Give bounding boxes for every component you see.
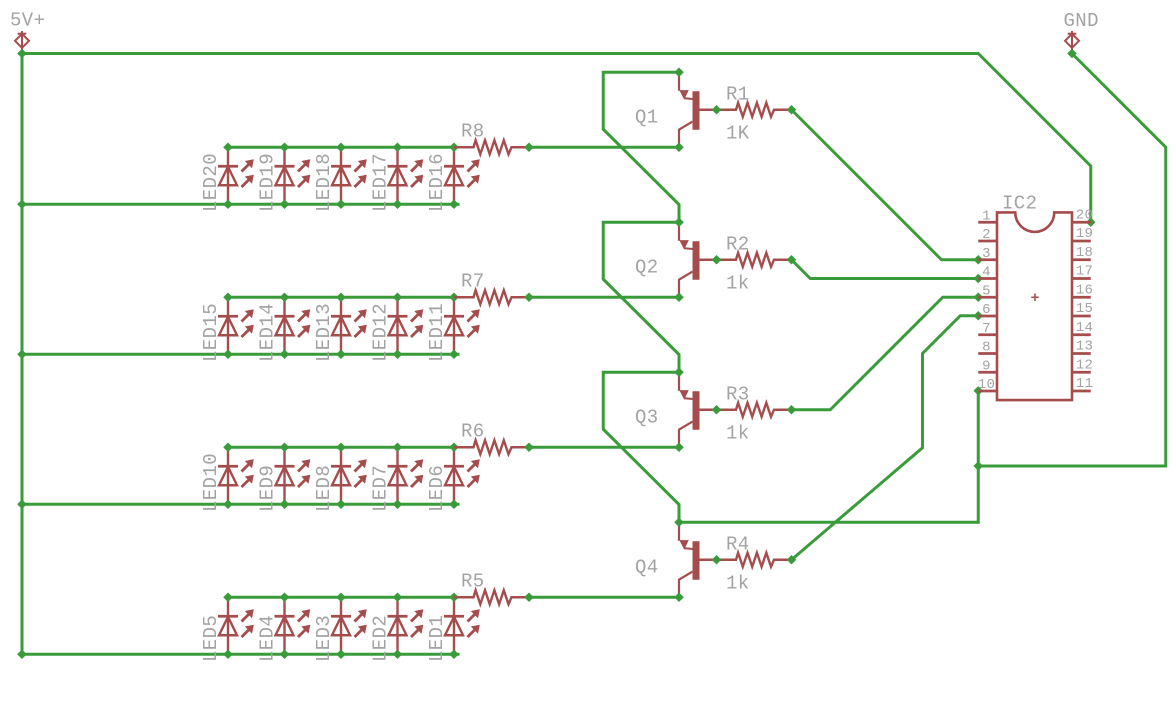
pin 13 [1072, 339, 1093, 355]
wire IC pin10 to Q4 emitter GND net [679, 391, 978, 523]
junction R4 left [712, 555, 722, 565]
LED LED1 [444, 597, 480, 654]
svg-text:20: 20 [1076, 207, 1094, 223]
junction LED2 cathode [393, 592, 403, 602]
junction LED4 cathode [280, 592, 290, 602]
wire R8 to transistor collector [529, 146, 679, 149]
svg-text:LED17: LED17 [370, 153, 392, 212]
svg-text:R1: R1 [726, 83, 750, 105]
svg-text:R6: R6 [461, 420, 485, 442]
svg-text:Q4: Q4 [635, 556, 659, 578]
svg-text:2: 2 [982, 227, 991, 243]
pin 6 [978, 302, 997, 318]
junction Q2 emitter [674, 217, 684, 227]
junction LED13 anode [336, 349, 346, 359]
junction anode rail at 5V+ rail [17, 649, 27, 659]
LED LED3 [331, 597, 367, 654]
svg-text:LED2: LED2 [370, 615, 392, 662]
pin 4 [978, 265, 997, 281]
wire 5V+ top rail to IC pin 20 [22, 54, 1091, 223]
wire R7 row cathode rail [228, 296, 454, 299]
svg-text:LED3: LED3 [313, 615, 335, 662]
junction LED15 cathode [223, 292, 233, 302]
svg-text:7: 7 [982, 321, 991, 337]
svg-text:14: 14 [1076, 320, 1094, 336]
junction R3 left [712, 405, 722, 415]
resistor R6 [454, 440, 529, 454]
junction LED1 anode [449, 649, 459, 659]
junction LED5 anode [223, 649, 233, 659]
svg-text:12: 12 [1076, 357, 1094, 373]
svg-text:R7: R7 [461, 270, 485, 292]
svg-text:1k: 1k [726, 423, 750, 445]
svg-text:LED13: LED13 [313, 303, 335, 362]
junction LED19 cathode [280, 142, 290, 152]
svg-text:LED14: LED14 [257, 303, 279, 362]
resistor R5 [454, 590, 529, 604]
junction R5 right [524, 592, 534, 602]
junction Q2 collector [674, 292, 684, 302]
junction LED15 anode [223, 349, 233, 359]
svg-text:R8: R8 [461, 120, 485, 142]
wire R5 to transistor collector [529, 596, 679, 599]
junction Q4 collector [674, 592, 684, 602]
junction LED16 cathode [449, 142, 459, 152]
pin 3 [978, 246, 997, 262]
pin 16 [1072, 282, 1093, 298]
wire R7 row anode rail [22, 353, 460, 356]
svg-text:LED11: LED11 [426, 303, 448, 362]
LED LED16 [444, 147, 480, 204]
junction LED12 anode [393, 349, 403, 359]
LED LED12 [388, 297, 424, 354]
svg-text:LED1: LED1 [426, 615, 448, 662]
junction anode rail at 5V+ rail [17, 199, 27, 209]
LED LED18 [331, 147, 367, 204]
junction LED8 anode [336, 499, 346, 509]
junction LED10 anode [223, 499, 233, 509]
svg-text:LED20: LED20 [200, 153, 222, 212]
junction LED3 cathode [336, 592, 346, 602]
junction R1 left [712, 105, 722, 115]
junction LED4 anode [280, 649, 290, 659]
junction LED9 cathode [280, 442, 290, 452]
junction GND net at x978 [973, 461, 983, 471]
junction IC pin 20 [1086, 217, 1096, 227]
transistor Q2 [679, 224, 717, 295]
junction LED14 cathode [280, 292, 290, 302]
junction LED14 anode [280, 349, 290, 359]
LED LED7 [388, 447, 424, 504]
pin 9 [978, 358, 997, 374]
wire R8 row anode rail [22, 203, 460, 206]
wire R5 row cathode rail [228, 596, 454, 599]
junction IC pin 6 [973, 311, 983, 321]
svg-text:1k: 1k [726, 573, 750, 595]
LED LED9 [275, 447, 311, 504]
supply 5V+ symbol [15, 31, 29, 51]
svg-text:LED8: LED8 [313, 465, 335, 512]
svg-text:LED19: LED19 [257, 153, 279, 212]
wire R6 row cathode rail [228, 446, 454, 449]
junction 5V+ pin [17, 49, 27, 59]
junction IC pin 3 [973, 255, 983, 265]
wire R2 to IC pin 4 [792, 260, 979, 279]
junction IC pin 10 [973, 386, 983, 396]
svg-text:11: 11 [1076, 376, 1094, 392]
junction LED20 cathode [223, 142, 233, 152]
junction Q3 collector [674, 442, 684, 452]
svg-text:Q2: Q2 [635, 256, 659, 278]
LED LED10 [218, 447, 254, 504]
junction LED9 anode [280, 499, 290, 509]
junction LED13 cathode [336, 292, 346, 302]
junction LED16 anode [449, 199, 459, 209]
junction anode rail at 5V+ rail [17, 499, 27, 509]
LED LED15 [218, 297, 254, 354]
LED LED20 [218, 147, 254, 204]
pin 15 [1072, 301, 1093, 317]
junction IC pin 4 [973, 274, 983, 284]
svg-text:5: 5 [982, 283, 991, 299]
junction LED17 cathode [393, 142, 403, 152]
LED LED17 [388, 147, 424, 204]
IC IC2 body [997, 212, 1072, 400]
junction Q4 emitter [674, 517, 684, 527]
svg-text:R4: R4 [726, 533, 750, 555]
junction R1 right [787, 105, 797, 115]
svg-text:R2: R2 [726, 233, 750, 255]
junction R2 right [787, 255, 797, 265]
junction LED1 cathode [449, 592, 459, 602]
transistor Q1 [679, 74, 717, 145]
junction LED20 anode [223, 199, 233, 209]
resistor R4 [717, 553, 792, 567]
resistor R1 [717, 103, 792, 117]
junction LED8 cathode [336, 442, 346, 452]
svg-text:17: 17 [1076, 264, 1094, 280]
junction LED11 anode [449, 349, 459, 359]
svg-text:LED5: LED5 [200, 615, 222, 662]
svg-text:1k: 1k [726, 273, 750, 295]
transistor Q4 [679, 524, 717, 595]
svg-text:9: 9 [982, 358, 991, 374]
transistor Q3 [679, 374, 717, 445]
junction LED3 anode [336, 649, 346, 659]
junction R3 right [787, 405, 797, 415]
svg-text:1: 1 [982, 208, 991, 224]
wire 5V+ vertical rail [21, 54, 24, 655]
junction IC pin 5 [973, 292, 983, 302]
LED LED11 [444, 297, 480, 354]
LED LED4 [275, 597, 311, 654]
wire Q1 emitter loop to next emitter [603, 72, 679, 222]
wire R5 row anode rail [22, 653, 460, 656]
junction LED6 anode [449, 499, 459, 509]
pin 8 [978, 340, 997, 356]
LED LED6 [444, 447, 480, 504]
junction R4 right [787, 555, 797, 565]
junction Q1 emitter [674, 67, 684, 77]
svg-text:18: 18 [1076, 245, 1094, 261]
LED LED13 [331, 297, 367, 354]
svg-text:LED7: LED7 [370, 465, 392, 512]
ground GND symbol [1065, 31, 1079, 51]
svg-text:8: 8 [982, 340, 991, 356]
svg-text:10: 10 [978, 377, 996, 393]
pin 14 [1072, 320, 1093, 336]
wire R1 to IC pin 3 [792, 110, 979, 260]
svg-text:GND: GND [1064, 10, 1099, 32]
pin 5 [978, 283, 997, 299]
LED LED19 [275, 147, 311, 204]
junction LED19 anode [280, 199, 290, 209]
wire GND diagonal right side [978, 54, 1166, 467]
svg-text:IC2: IC2 [1002, 193, 1037, 215]
junction LED17 anode [393, 199, 403, 209]
pin 7 [978, 321, 997, 337]
junction LED18 anode [336, 199, 346, 209]
resistor R7 [454, 290, 529, 304]
pin 10 [978, 377, 997, 393]
svg-text:19: 19 [1076, 226, 1094, 242]
wire R6 to transistor collector [529, 446, 679, 449]
wire Q2 emitter loop to next emitter [603, 222, 679, 372]
svg-text:LED10: LED10 [200, 453, 222, 512]
svg-text:13: 13 [1076, 339, 1094, 355]
svg-text:16: 16 [1076, 282, 1094, 298]
pin 2 [978, 227, 997, 243]
svg-text:5V+: 5V+ [10, 10, 45, 32]
junction Q3 emitter [674, 367, 684, 377]
wire R6 row anode rail [22, 503, 460, 506]
pin 20 [1072, 207, 1093, 223]
pin 1 [978, 208, 997, 224]
svg-text:4: 4 [982, 265, 991, 281]
pin 12 [1072, 357, 1093, 373]
wire R8 row cathode rail [228, 146, 454, 149]
junction Q1 collector [674, 142, 684, 152]
junction LED7 cathode [393, 442, 403, 452]
junction LED6 cathode [449, 442, 459, 452]
junction LED12 cathode [393, 292, 403, 302]
LED LED14 [275, 297, 311, 354]
svg-text:R5: R5 [461, 570, 485, 592]
junction R7 right [524, 292, 534, 302]
svg-text:LED15: LED15 [200, 303, 222, 362]
svg-text:1K: 1K [726, 123, 750, 145]
wire R3 to IC pin 5 [792, 297, 979, 410]
pin 17 [1072, 264, 1093, 280]
junction LED11 cathode [449, 292, 459, 302]
junction R8 right [524, 142, 534, 152]
junction LED7 anode [393, 499, 403, 509]
junction R6 right [524, 442, 534, 452]
junction R2 left [712, 255, 722, 265]
LED LED5 [218, 597, 254, 654]
resistor R3 [717, 403, 792, 417]
wire R4 to IC pin 6 [792, 316, 979, 560]
svg-text:15: 15 [1076, 301, 1094, 317]
junction LED10 cathode [223, 442, 233, 452]
svg-text:6: 6 [982, 302, 991, 318]
resistor R2 [717, 253, 792, 267]
pin 11 [1072, 376, 1093, 392]
svg-text:LED4: LED4 [257, 615, 279, 662]
svg-text:3: 3 [982, 246, 991, 262]
wire R7 to transistor collector [529, 296, 679, 299]
LED LED2 [388, 597, 424, 654]
LED LED8 [331, 447, 367, 504]
junction LED2 anode [393, 649, 403, 659]
resistor R8 [454, 140, 529, 154]
junction GND pin [1067, 49, 1077, 59]
svg-text:LED18: LED18 [313, 153, 335, 212]
junction LED5 cathode [223, 592, 233, 602]
svg-text:LED9: LED9 [257, 465, 279, 512]
svg-text:LED16: LED16 [426, 153, 448, 212]
junction LED18 cathode [336, 142, 346, 152]
svg-text:Q1: Q1 [635, 106, 659, 128]
wire Q3 emitter loop to next emitter [603, 372, 679, 522]
pin 18 [1072, 245, 1093, 261]
junction anode rail at 5V+ rail [17, 349, 27, 359]
svg-text:LED12: LED12 [370, 303, 392, 362]
svg-text:R3: R3 [726, 383, 750, 405]
svg-text:Q3: Q3 [635, 406, 659, 428]
pin 19 [1072, 226, 1093, 242]
svg-text:LED6: LED6 [426, 465, 448, 512]
